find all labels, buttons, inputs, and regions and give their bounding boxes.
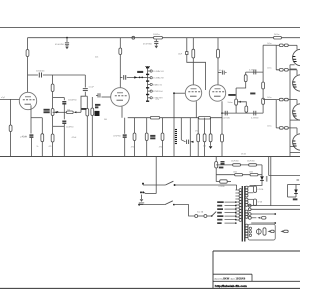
svg-text:560: 560 [203, 146, 206, 148]
svg-text:2 6.3VAC H2: 2 6.3VAC H2 [153, 77, 164, 80]
svg-text:470uF: 470uF [72, 137, 77, 139]
svg-text:4 PWR B+6: 4 PWR B+6 [153, 91, 163, 93]
svg-text:20uF/450: 20uF/450 [247, 161, 255, 163]
svg-text:470: 470 [131, 147, 134, 149]
svg-text:47uF: 47uF [22, 136, 27, 138]
svg-text:a7p2: a7p2 [1, 97, 5, 99]
svg-text:100/2w: 100/2w [153, 34, 160, 36]
svg-text:10n/400v: 10n/400v [36, 70, 46, 72]
svg-text:4.7k: 4.7k [156, 99, 159, 101]
svg-text:drawn by BKW | date 10/28/06: drawn by BKW | date 10/28/06 [214, 278, 246, 281]
svg-text:22k: 22k [95, 57, 98, 59]
svg-text:1k: 1k [37, 146, 39, 148]
svg-text:360: 360 [104, 119, 107, 121]
svg-text:100uF/50: 100uF/50 [68, 99, 77, 101]
svg-text:0.47/630: 0.47/630 [251, 117, 258, 119]
svg-text:fuse 3A: fuse 3A [197, 210, 204, 213]
svg-text:470: 470 [159, 147, 162, 149]
svg-text:1k 5w: 1k 5w [267, 67, 272, 69]
svg-text:1k 5w: 1k 5w [267, 43, 272, 45]
svg-text:0.47/630: 0.47/630 [223, 117, 230, 119]
svg-text:47uF/450: 47uF/450 [143, 44, 153, 46]
svg-text:0.1uF: 0.1uF [219, 70, 223, 72]
svg-text:0.1/630: 0.1/630 [219, 186, 225, 188]
svg-text:750: 750 [67, 110, 70, 112]
svg-text:2k/5w: 2k/5w [274, 34, 280, 36]
svg-text:16ohm: 16ohm [228, 102, 234, 104]
svg-text:47uF/450: 47uF/450 [55, 44, 65, 46]
svg-text:1k 5w: 1k 5w [267, 126, 272, 128]
svg-text:1 6.3VAC H1: 1 6.3VAC H1 [153, 70, 164, 73]
svg-text:3 6AV5 G1: 3 6AV5 G1 [153, 83, 162, 86]
svg-text:10uF/50: 10uF/50 [66, 126, 74, 128]
svg-text:47uF/50: 47uF/50 [113, 136, 121, 138]
svg-text:20uF/450: 20uF/450 [231, 161, 239, 163]
svg-text:270: 270 [195, 131, 198, 133]
svg-text:0.1uF: 0.1uF [89, 87, 95, 89]
svg-text:100k: 100k [249, 171, 253, 173]
svg-text:470: 470 [49, 146, 52, 148]
svg-text:1k 5w: 1k 5w [267, 97, 272, 99]
svg-text:0.47/630: 0.47/630 [249, 69, 256, 71]
svg-text:100k: 100k [233, 171, 237, 173]
svg-text:http:∕∕tubelab-fib.com: http:∕∕tubelab-fib.com [215, 284, 247, 288]
